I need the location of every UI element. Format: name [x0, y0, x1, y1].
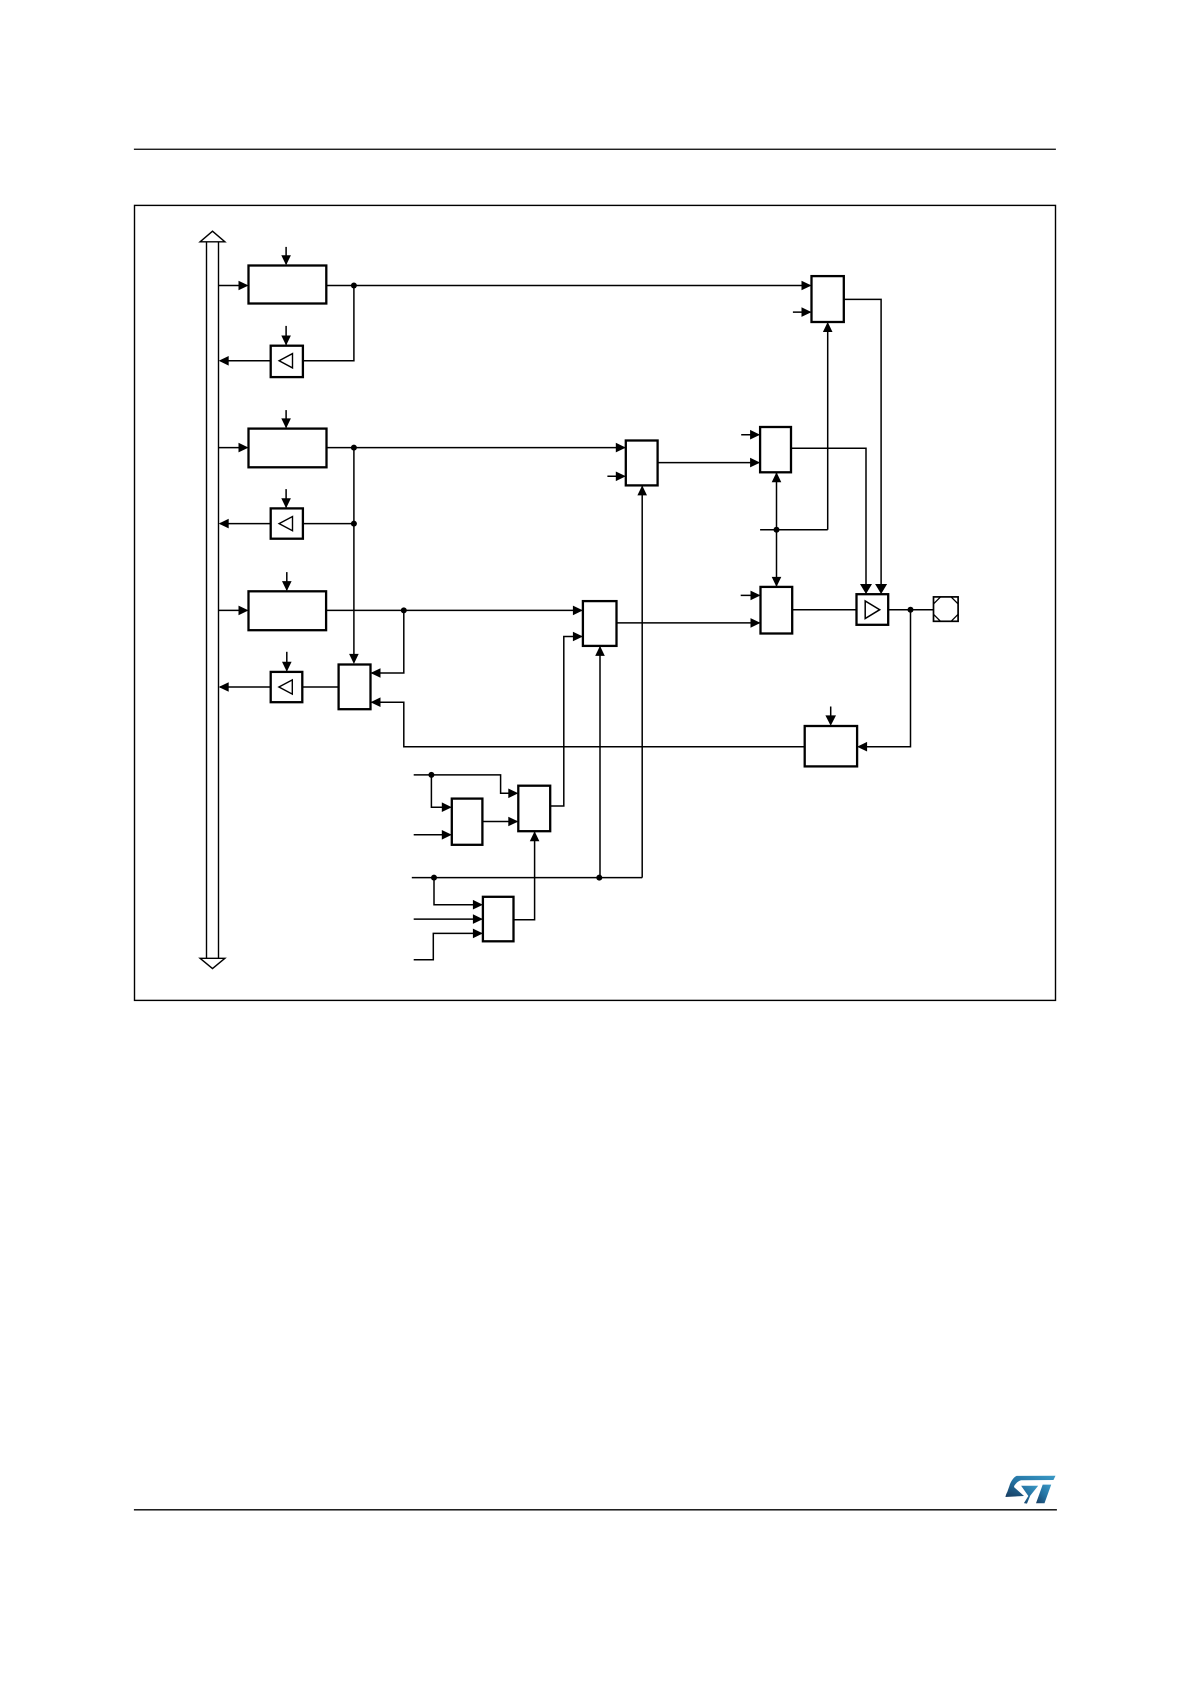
node driver output — [908, 607, 914, 613]
wire junction up to block B bottom — [760, 322, 832, 530]
block E — [583, 601, 617, 646]
wire stub to block L input 3 — [414, 929, 483, 960]
figure frame — [135, 205, 1056, 1000]
wire feedback to block A input 2 — [371, 697, 805, 746]
wire register 1 output to mux B — [326, 281, 811, 291]
wire register 2 output to block C — [327, 443, 626, 453]
block A — [339, 665, 371, 710]
footer rule — [134, 1509, 1057, 1511]
wire mux D output to driver — [791, 448, 872, 594]
mux D — [760, 427, 791, 472]
node upper feed — [428, 772, 434, 778]
wire buffer 3 to bus — [219, 682, 271, 692]
output driver box — [857, 594, 889, 625]
wire upper feed to blocks J and K — [414, 775, 519, 798]
wire block C output to mux D — [658, 458, 761, 468]
wire bus to register 2 — [219, 443, 249, 453]
register 1 — [249, 266, 327, 304]
wire register 3 output to block E — [326, 606, 583, 616]
node on D-F vertical — [774, 527, 780, 533]
data bus bottom arrowhead — [200, 958, 225, 968]
write strobe arrow register 2 — [281, 410, 291, 428]
wire block A to buffer 3 — [302, 686, 338, 688]
block L — [483, 897, 514, 942]
write strobe arrow register 3 — [282, 572, 292, 591]
block B — [812, 276, 844, 322]
stub arrow block B input 2 — [793, 307, 812, 317]
wire buffer 1 to bus — [219, 356, 271, 366]
register 2 — [249, 429, 327, 468]
input block I — [805, 726, 857, 766]
ST Microelectronics logo — [1005, 1476, 1055, 1504]
read buffer 2 triangle — [279, 517, 292, 531]
wire pad node down to input block — [857, 610, 910, 752]
wire buffer 2 to bus — [219, 519, 271, 529]
node read tap 2 — [351, 521, 357, 527]
data bus top arrowhead — [200, 231, 225, 242]
node register 1 output — [351, 283, 357, 289]
data bus line left — [206, 242, 208, 959]
block J — [452, 799, 483, 845]
read buffer 1 box — [271, 346, 303, 377]
node bottom net right — [596, 875, 602, 881]
wire mux F output to driver — [792, 609, 856, 611]
stub arrow mux F input 1 — [741, 591, 761, 601]
wire node to read buffer 2 — [303, 523, 354, 525]
strobe arrow input block top — [825, 707, 836, 726]
wire bus to register 3 — [219, 606, 249, 616]
stub arrow block C input 2 — [607, 472, 625, 482]
wire bottom net up to block E — [595, 646, 605, 878]
read strobe arrow buffer 2 — [281, 489, 291, 508]
wire stub to block L input 2 — [414, 914, 483, 924]
I/O pad — [934, 597, 959, 621]
read buffer 1 triangle — [279, 354, 292, 368]
node register 2 output — [351, 445, 357, 451]
wire block E output to mux F — [617, 618, 761, 628]
wire bus to register 1 — [219, 281, 249, 291]
node register 3 output — [401, 607, 407, 613]
block C — [626, 441, 658, 486]
wire mux D bottom to mux F top — [772, 472, 782, 587]
wire node to read buffer 1 — [303, 286, 354, 361]
wire block B output to driver — [844, 299, 887, 594]
output driver triangle — [865, 601, 880, 619]
read buffer 3 box — [271, 672, 303, 702]
mux F — [761, 587, 793, 634]
write strobe arrow register 1 — [281, 247, 291, 265]
register 3 — [249, 591, 327, 630]
read strobe arrow buffer 1 — [281, 326, 291, 346]
stub arrow mux D input 1 — [741, 430, 760, 440]
long bottom net — [412, 877, 642, 879]
wire bottom net up to block C — [637, 485, 647, 877]
wire block J output to block K — [482, 817, 518, 827]
wire node down to block L input 1 — [434, 878, 483, 910]
read buffer 2 box — [271, 508, 303, 538]
block K — [518, 786, 550, 832]
wire stub to block J input 2 — [414, 830, 452, 840]
wire node down to block A — [349, 448, 359, 664]
data bus line right — [218, 242, 220, 959]
read buffer 3 triangle — [279, 680, 292, 694]
wire driver output to pad — [888, 609, 933, 611]
wire block L output to block K bottom — [514, 831, 540, 920]
read strobe arrow buffer 3 — [282, 652, 292, 672]
header rule — [134, 148, 1056, 150]
node bottom net left — [431, 875, 437, 881]
wire node down to block A input 1 — [371, 610, 404, 677]
wire block K output to block E — [550, 632, 583, 806]
wire node down to block J input 1 — [431, 775, 451, 812]
